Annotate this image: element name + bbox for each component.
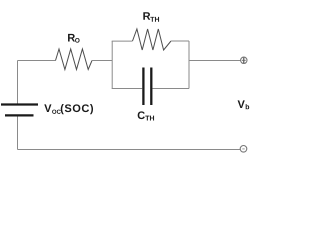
wire: box bottom edge right stub [153,88,190,90]
wire: left vertical down to battery top plate [17,61,19,105]
wire: box right edge to positive terminal [189,60,241,62]
positive terminal circle [241,57,247,63]
wire: left horizontal from top-left node to R0 [18,60,56,62]
wire: bottom rail to negative terminal [18,149,241,151]
wire: RC box right edge [188,41,190,89]
capacitor CTH left plate [142,68,144,106]
negative terminal circle [240,146,247,153]
label VOC(SOC) [44,104,93,114]
negative terminal minus sign [242,148,244,150]
label CTH [138,111,154,120]
battery VOC top plate [1,103,38,105]
positive terminal plus sign [243,58,245,63]
label Vb [238,100,250,109]
battery VOC bottom plate [5,114,34,116]
wire: box bottom edge left stub [112,88,143,90]
resistor RTH zigzag [133,29,172,50]
label R0 [68,34,80,43]
wire: RC box left edge [111,41,113,89]
resistor R0 zigzag [56,49,93,70]
wire: box top edge left stub [112,40,133,42]
wire: box top edge right stub [171,40,189,42]
label RTH [143,12,159,21]
wire: R0 to RC box left edge [92,60,112,62]
capacitor CTH right plate [150,68,152,106]
wire: vertical from battery bottom plate down to bottom rail [17,117,19,150]
